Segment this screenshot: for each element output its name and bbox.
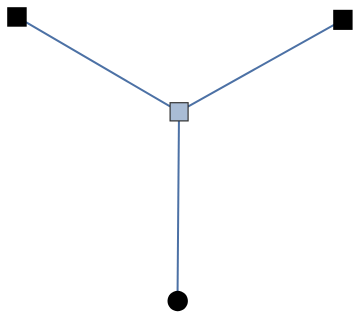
node C (bottom black circle) xyxy=(168,291,188,311)
wire from node A to hub xyxy=(17,17,179,112)
hub node (center light-blue square) xyxy=(170,103,188,121)
wire from node B to hub xyxy=(179,20,343,112)
node B (top-right black square) xyxy=(333,10,352,30)
node A (top-left black square) xyxy=(7,7,27,27)
wire from hub to node C xyxy=(178,112,180,301)
